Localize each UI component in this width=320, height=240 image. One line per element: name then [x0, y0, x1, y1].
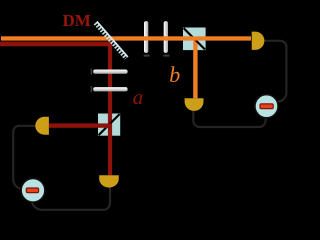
right detector D2 — [252, 32, 265, 50]
waveplate P3 tick (bottom end cap) — [144, 55, 150, 57]
diagonal of BS1 — [99, 114, 120, 135]
waveplate P2 (lower horizontal plate on red path) — [93, 87, 127, 91]
svg-text:b: b — [169, 62, 180, 87]
bottom-left detector D3 — [99, 175, 119, 187]
beam splitter cube BS2 (upper right) — [183, 28, 206, 51]
dichroic mirror DM (hatched diagonal) — [96, 22, 128, 59]
right meter indicator bar — [260, 104, 273, 109]
vertical dark-red beam (mode a, reflected by DM) — [108, 42, 112, 176]
bottom-right detector D4 — [185, 98, 204, 111]
waveplate P1 (upper horizontal plate on red path) — [93, 70, 127, 74]
horizontal dark-red beam (input, lower) — [0, 42, 112, 47]
wire from left meter to bottom-left detector — [32, 186, 111, 210]
beam splitter cube BS1 (lower left) — [98, 114, 120, 136]
vertical orange beam (down from BS2) — [193, 39, 197, 99]
svg-text:a: a — [133, 85, 144, 109]
wire from left detector to left coincidence meter — [13, 126, 36, 190]
wire from bottom-right detector to right meter — [193, 109, 265, 127]
left meter indicator bar — [26, 188, 38, 193]
svg-text:DM: DM — [63, 11, 91, 30]
waveplate P4 tick — [163, 55, 169, 57]
diagonal of BS2 — [184, 28, 205, 49]
waveplate P1 tick (left end cap) — [91, 69, 93, 75]
left detector D1 — [35, 117, 49, 135]
right coincidence meter body — [255, 95, 278, 118]
waveplate P4 (right vertical plate on orange path) — [164, 21, 168, 53]
wire from right detector to right coincidence meter — [262, 41, 286, 104]
horizontal dark-red beam from BS1 to left detector — [49, 123, 111, 127]
waveplate P2 tick — [91, 86, 93, 92]
waveplate P3 (left vertical plate on orange path) — [144, 21, 148, 53]
horizontal orange beam (input, upper) — [1, 36, 251, 40]
left coincidence meter body — [21, 178, 45, 202]
